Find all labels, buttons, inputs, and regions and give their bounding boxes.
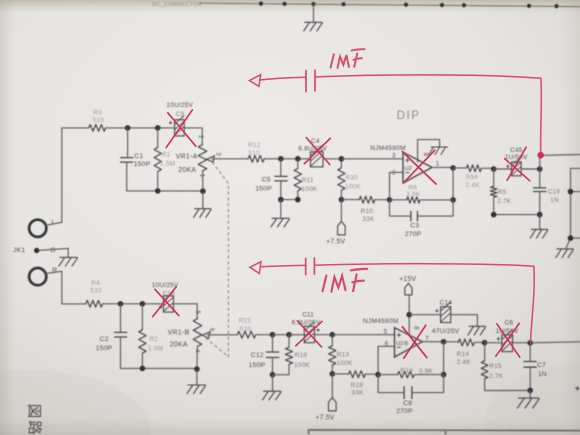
- svg-text:20KA: 20KA: [178, 167, 196, 174]
- svg-text:R2: R2: [149, 336, 158, 343]
- svg-text:6: 6: [385, 341, 389, 348]
- node dot output net: [527, 340, 533, 346]
- svg-text:JK1: JK1: [13, 247, 25, 254]
- ground C14: [468, 326, 486, 335]
- node dot C5 tap: [278, 156, 284, 162]
- resistor R21: [237, 331, 255, 338]
- capacitor C3 loop: [390, 200, 454, 216]
- svg-text:6: 6: [208, 328, 215, 332]
- red wire down to node bottom: [530, 266, 534, 342]
- plus sign input: [406, 159, 409, 162]
- junction dots on DC rail: [259, 2, 559, 9]
- plus sign input B: [397, 333, 400, 336]
- node dot: [125, 125, 131, 131]
- svg-text:R19: R19: [295, 352, 308, 359]
- svg-text:3.9K: 3.9K: [406, 191, 421, 198]
- red wire arrow to cap bottom: [260, 265, 305, 266]
- svg-text:C19: C19: [548, 188, 560, 195]
- svg-text:1: 1: [199, 174, 206, 178]
- node dot R11 tap: [295, 156, 301, 162]
- handwritten 1MF bottom: [323, 269, 368, 292]
- svg-text:270P: 270P: [405, 231, 422, 238]
- wire R15 bottom to C7 bottom: [485, 390, 531, 392]
- svg-text:R1: R1: [162, 151, 171, 158]
- node dot: [450, 197, 456, 203]
- capacitor C11 electrolytic: [289, 334, 304, 336]
- svg-text:C12: C12: [251, 352, 264, 359]
- svg-text:R3: R3: [93, 110, 102, 117]
- ground C12: [263, 391, 282, 400]
- wire to ground C12: [272, 375, 274, 391]
- wire R input down to R4: [45, 271, 62, 304]
- capacitor C10 electrolytic: [159, 291, 174, 312]
- svg-text:150P: 150P: [255, 185, 272, 192]
- ground C7: [517, 398, 539, 408]
- svg-text:C7: C7: [537, 362, 546, 369]
- wire C4 to node: [323, 158, 341, 160]
- capacitor C1: [127, 128, 129, 157]
- ground top rail: [304, 22, 323, 31]
- capacitor C4 electrolytic: [310, 145, 323, 167]
- resistor R15: [484, 343, 486, 361]
- resistor R14: [444, 341, 459, 343]
- node dot: [295, 197, 301, 203]
- wire C9 to VR1-A: [184, 127, 202, 129]
- svg-text:NJM4580M: NJM4580M: [363, 318, 399, 325]
- svg-text:U2: U2: [405, 166, 412, 172]
- svg-text:510: 510: [240, 326, 252, 333]
- svg-text:1N: 1N: [550, 197, 558, 204]
- resistor R18: [332, 373, 348, 375]
- wire stub to top ground: [313, 4, 315, 22]
- node dot after R54: [491, 166, 497, 172]
- red X over C11: [296, 321, 322, 347]
- svg-text:L: L: [52, 219, 56, 226]
- capacitor C5: [280, 159, 282, 176]
- wire to ground VR1-B: [196, 369, 198, 384]
- svg-text:B: B: [404, 341, 408, 347]
- node dot C12 bottom: [270, 372, 276, 378]
- svg-text:R13: R13: [337, 351, 350, 358]
- node dot pin6 R18 R16: [375, 372, 381, 378]
- right column wires: [566, 168, 580, 248]
- node dot +15V rail: [406, 312, 412, 318]
- wire pin 6 net: [378, 346, 394, 374]
- capacitor C8 loop: [378, 375, 444, 393]
- svg-text:R11: R11: [302, 177, 314, 184]
- ground VR1-A: [194, 209, 212, 218]
- resistor R10: [341, 199, 359, 201]
- ground C5 R11: [271, 218, 290, 227]
- svg-text:150P: 150P: [249, 362, 266, 369]
- svg-text:R15: R15: [489, 363, 502, 370]
- node dot R15 tap: [482, 340, 488, 346]
- wire to C10: [121, 303, 164, 305]
- svg-text:R21: R21: [239, 318, 252, 325]
- svg-text:1: 1: [436, 161, 440, 168]
- wiper arrow VR1-B: [202, 332, 210, 339]
- power flag symbol: [429, 147, 448, 155]
- svg-text:510: 510: [248, 150, 260, 157]
- svg-text:1U/50V: 1U/50V: [505, 154, 528, 161]
- plus mark right edge: [576, 387, 580, 391]
- title block top border: [309, 430, 580, 434]
- svg-text:7: 7: [425, 336, 429, 343]
- wire top DC rail: [200, 3, 580, 6]
- red X over C4: [304, 138, 330, 165]
- svg-text:2.7K: 2.7K: [497, 198, 512, 205]
- pin 8 power hook U2-A: [418, 140, 440, 162]
- ground VR1-B: [187, 385, 206, 394]
- resistor R1: [157, 128, 159, 148]
- svg-text:2: 2: [197, 135, 204, 139]
- svg-text:4: 4: [193, 349, 200, 353]
- svg-text:C9: C9: [176, 111, 185, 118]
- wire output B down to feedback: [443, 342, 445, 375]
- svg-text:2.4K: 2.4K: [457, 359, 472, 366]
- svg-text:VR1-A: VR1-A: [176, 154, 198, 161]
- wire L input to R3: [45, 128, 62, 225]
- svg-text:3: 3: [214, 152, 221, 156]
- svg-text:20KA: 20KA: [170, 342, 188, 349]
- svg-text:100K: 100K: [294, 362, 310, 369]
- node dot C7 bottom: [527, 388, 533, 394]
- wire G to ground: [39, 248, 68, 257]
- wire wiper B to R21: [207, 334, 237, 336]
- node dot: [537, 212, 543, 218]
- resistor R3: [62, 127, 89, 129]
- node dot C12 tap: [270, 332, 276, 338]
- svg-text:100K: 100K: [301, 186, 317, 193]
- node dot output B: [441, 339, 447, 345]
- svg-text:DC_CONNECTOR: DC_CONNECTOR: [152, 2, 202, 8]
- svg-text:R12: R12: [248, 142, 261, 149]
- wire wiper to R12: [212, 158, 249, 160]
- svg-text:C6: C6: [505, 319, 514, 326]
- svg-text:R16: R16: [401, 367, 414, 374]
- node dot R13 tap: [330, 332, 336, 338]
- red X over U2-A: [402, 150, 436, 184]
- red wire down to node top: [540, 78, 543, 152]
- svg-text:2: 2: [392, 170, 396, 177]
- ground JK1 G: [59, 257, 78, 266]
- wire C2 R2 VR1B bottom rail: [121, 367, 197, 369]
- svg-text:100K: 100K: [345, 184, 361, 191]
- wire VR1-A bottom rail: [127, 190, 203, 192]
- resistor R13: [331, 335, 333, 346]
- resistor R12: [248, 155, 264, 162]
- wire to ground C5: [280, 200, 282, 218]
- wire C12 to R19 node: [273, 334, 290, 336]
- node dot VR1-A bottom: [200, 188, 206, 194]
- wire node to C9: [128, 127, 175, 129]
- svg-text:510: 510: [93, 117, 105, 124]
- node dot R1 bottom: [155, 188, 161, 194]
- op-amp U2-B triangle: [395, 328, 423, 357]
- node dot: [491, 212, 497, 218]
- node dot after C45: [537, 166, 543, 172]
- svg-text:G: G: [50, 247, 56, 254]
- wire node to op-amp pin 3: [341, 158, 403, 160]
- dashed gang link: [205, 162, 229, 357]
- connector +15V: [405, 283, 412, 295]
- svg-text:1.5M: 1.5M: [160, 160, 175, 167]
- wire C5 R11 ground rail: [281, 199, 298, 201]
- node G of JK1: [34, 248, 39, 253]
- svg-text:3.9K: 3.9K: [419, 368, 434, 375]
- capacitor C12: [272, 335, 274, 352]
- red X over C10: [153, 287, 179, 317]
- minus sign input: [406, 172, 409, 174]
- potentiometer VR1-A: [201, 128, 203, 145]
- connector +7.5V top channel: [338, 221, 346, 235]
- node dot R30 top: [339, 156, 345, 162]
- wire node to op-amp pin 5: [332, 334, 394, 336]
- resistor R2: [141, 304, 143, 330]
- capacitor C19: [539, 169, 541, 187]
- red wire cap to corner top: [316, 75, 541, 78]
- svg-text:R30: R30: [345, 174, 358, 181]
- svg-text:C8: C8: [403, 400, 412, 407]
- wire op-amp output pin 1: [432, 166, 453, 168]
- red arrow top channel: [249, 75, 260, 87]
- wire R13 to +7.5V plug: [331, 374, 333, 398]
- resistor R30: [340, 159, 342, 168]
- node dot right col bottom: [568, 235, 574, 241]
- wire C10 to VR1-B: [174, 303, 198, 305]
- svg-text:図: 図: [25, 404, 42, 419]
- svg-text:10U/25V: 10U/25V: [166, 102, 193, 109]
- red junction blob: [537, 152, 544, 159]
- resistor R16: [378, 374, 398, 376]
- capacitor C7: [529, 343, 531, 361]
- resistor R5: [493, 169, 495, 186]
- node dot: [441, 372, 447, 378]
- svg-text:510: 510: [90, 288, 102, 295]
- handwritten 1MF top: [331, 49, 365, 68]
- red capacitor symbol top: [306, 70, 315, 91]
- svg-text:150P: 150P: [134, 161, 151, 168]
- node dot R19 tap: [286, 332, 292, 338]
- ground C19: [530, 229, 548, 238]
- minus sign input B: [397, 346, 400, 348]
- svg-text:33K: 33K: [351, 389, 364, 396]
- node dot VR1-B bottom: [194, 366, 200, 372]
- svg-text:8: 8: [413, 326, 420, 330]
- svg-text:DIP: DIP: [397, 110, 421, 122]
- jack JK1 sleeve R: [29, 268, 46, 285]
- svg-text:2.7K: 2.7K: [489, 373, 504, 380]
- wire R12 to C4: [281, 158, 311, 160]
- svg-text:C5: C5: [262, 177, 271, 184]
- resistor R11: [297, 159, 299, 169]
- svg-text:150P: 150P: [96, 345, 113, 352]
- wire up and right offpage: [540, 155, 580, 170]
- node dot feedback: [387, 197, 393, 203]
- svg-text:+15V: +15V: [399, 276, 416, 283]
- red X over C9: [166, 110, 196, 148]
- red wire arrow to cap top: [260, 77, 306, 80]
- svg-text:1.5M: 1.5M: [148, 346, 163, 353]
- node dot: [140, 301, 146, 307]
- svg-text:2.4K: 2.4K: [466, 182, 481, 189]
- resistor R4: [62, 303, 86, 305]
- wire output down to feedback: [452, 168, 454, 200]
- red X over C6: [496, 323, 520, 357]
- svg-text:100K: 100K: [337, 360, 353, 367]
- wire to ground C19: [539, 215, 541, 229]
- svg-text:R54: R54: [466, 174, 479, 181]
- wire R19 bottom to C12 bottom: [273, 374, 290, 376]
- red wire cap to corner bottom: [315, 264, 534, 267]
- svg-text:C3: C3: [410, 223, 419, 230]
- wire R30 to +7.5V plug: [340, 200, 342, 222]
- wire R5 C19 bottom rail: [494, 214, 540, 216]
- ground right column: [556, 249, 574, 258]
- potentiometer VR1-B: [196, 304, 198, 319]
- jack JK1 sleeve L: [29, 220, 46, 237]
- svg-text:R4: R4: [91, 280, 100, 287]
- svg-text:C11: C11: [302, 311, 314, 318]
- capacitor C6 electrolytic: [485, 342, 502, 344]
- pin 8 power wire U2-B: [408, 295, 410, 335]
- wire feedback node to pin 2: [390, 172, 404, 199]
- wire to ground C7: [529, 390, 531, 397]
- red capacitor symbol bottom: [306, 258, 315, 275]
- svg-text:1N: 1N: [538, 371, 547, 378]
- connector +7.5V bottom channel: [329, 398, 337, 411]
- svg-text:路: 路: [26, 420, 43, 435]
- capacitor C9 electrolytic: [169, 116, 184, 136]
- red arrow bottom channel: [250, 262, 261, 274]
- node dot: [140, 366, 146, 372]
- svg-text:C2: C2: [100, 336, 109, 343]
- resistor R6: [390, 199, 407, 201]
- svg-text:47U/25V: 47U/25V: [432, 328, 460, 335]
- node dot output A: [450, 165, 456, 171]
- svg-text:NJM4580M: NJM4580M: [370, 145, 406, 152]
- node dot R13 bottom: [330, 371, 336, 377]
- red X over C45: [505, 147, 530, 181]
- svg-text:5: 5: [384, 329, 388, 336]
- svg-text:5: 5: [194, 311, 201, 315]
- svg-text:+7.5V: +7.5V: [315, 414, 334, 421]
- svg-text:U2: U2: [396, 341, 403, 347]
- resistor R19: [288, 335, 290, 348]
- node dot R30 bottom: [339, 197, 345, 203]
- svg-text:R10: R10: [361, 208, 374, 215]
- capacitor C45 electrolytic: [494, 168, 512, 170]
- svg-text:+7.5V: +7.5V: [326, 238, 345, 245]
- wire to ground VR1-A: [202, 191, 204, 208]
- wire op-amp B output pin 7: [422, 341, 443, 343]
- wire output offpage right: [530, 342, 580, 343]
- svg-text:R14: R14: [457, 351, 470, 358]
- svg-text:VR1-B: VR1-B: [168, 329, 190, 336]
- capacitor C2: [120, 304, 122, 332]
- node dot right col: [568, 189, 574, 195]
- svg-text:C14: C14: [440, 300, 453, 307]
- node dot: [155, 125, 161, 131]
- op-amp U2-A triangle: [403, 152, 432, 183]
- capacitor C14 electrolytic: [409, 314, 440, 316]
- node dot: [118, 301, 124, 307]
- svg-text:C1: C1: [134, 153, 143, 160]
- svg-text:33K: 33K: [362, 216, 375, 223]
- svg-text:R: R: [52, 267, 57, 274]
- red X over U2-B: [402, 325, 426, 358]
- svg-text:270P: 270P: [396, 408, 413, 415]
- resistor R54: [453, 167, 466, 169]
- svg-text:C45: C45: [510, 147, 523, 154]
- svg-text:R5: R5: [498, 189, 507, 196]
- svg-text:3: 3: [392, 153, 396, 160]
- svg-text:R18: R18: [351, 382, 364, 389]
- wiper arrow VR1-A: [207, 156, 215, 163]
- node dot: [278, 197, 284, 203]
